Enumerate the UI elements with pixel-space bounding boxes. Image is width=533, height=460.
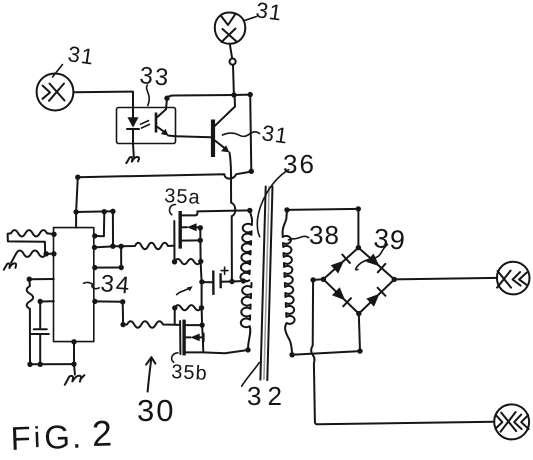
mosfet 35a gate — [173, 221, 175, 262]
junction — [357, 348, 362, 353]
wire R1 elbow — [8, 233, 46, 253]
junction — [172, 259, 177, 264]
transformer primary winding (lower) — [241, 283, 252, 350]
junction — [284, 207, 289, 212]
wire 35a drain to transformer (horizontal y210) — [197, 210, 249, 211]
junction (opto collector) — [164, 96, 169, 101]
transformer primary winding — [240, 211, 252, 282]
svg-text:35a: 35a — [164, 185, 201, 209]
junction (bridge corner) — [321, 277, 326, 282]
junction — [110, 209, 115, 214]
wire collector rail y95 — [167, 95, 234, 98]
ground (main) — [73, 364, 76, 375]
wire node A vertical — [200, 228, 202, 325]
label 32 — [242, 363, 260, 387]
lamp (output, right) — [497, 262, 530, 295]
svg-text:33: 33 — [138, 62, 171, 92]
mosfet 35b body-diode arrow — [186, 336, 191, 338]
wire — [47, 232, 54, 235]
ground (optocoupler) — [132, 144, 135, 157]
junction — [119, 265, 124, 270]
wire — [113, 245, 121, 247]
wire to x250 — [234, 94, 250, 96]
diode D1 — [331, 261, 344, 274]
junction (IC pin) — [92, 233, 97, 238]
junction — [198, 238, 203, 243]
wire left corner down to bottom lamp (with jog) — [311, 280, 494, 424]
phototransistor inside optocoupler — [155, 113, 158, 133]
svg-text:31: 31 — [66, 41, 96, 69]
junction — [289, 352, 294, 357]
junction — [102, 209, 107, 214]
junction (IC pin) — [92, 265, 97, 270]
junction — [27, 362, 32, 367]
svg-text:31: 31 — [254, 0, 284, 26]
wire x113 vertical — [112, 212, 114, 247]
wire R6 left vertical — [174, 308, 176, 325]
wire IC pin to R3 node — [95, 246, 113, 247]
junction — [73, 209, 78, 214]
mosfet 35b source stub — [186, 351, 203, 353]
wire x123 vertical — [122, 302, 124, 325]
mosfet 35b drain stub — [186, 324, 202, 326]
svg-text:31: 31 — [260, 120, 290, 148]
junction (IC bottom pin) — [71, 339, 76, 344]
svg-text:34: 34 — [99, 270, 132, 300]
bridge edge (left-bottom) — [323, 279, 358, 313]
junction (cap node) — [199, 279, 204, 284]
lamp 31 (left) — [37, 74, 74, 111]
label 35b — [172, 353, 178, 362]
junction — [198, 259, 203, 264]
junction (IC pin) — [27, 277, 32, 282]
capacitor C1 — [212, 271, 214, 295]
wire emitter vertical (with hop bulge) — [230, 153, 236, 282]
junction — [38, 362, 43, 367]
bridge edge (bottom-right) — [359, 279, 395, 313]
junction — [118, 244, 123, 249]
resistor R1 — [11, 230, 47, 236]
junction — [199, 305, 204, 310]
mosfet 35a body-diode arrow — [182, 226, 187, 228]
wire to bridge top — [357, 209, 359, 248]
junction (IC pin) — [51, 232, 56, 237]
svg-text:39: 39 — [372, 223, 407, 256]
small arrow mark — [177, 288, 191, 295]
resistor R2 — [16, 251, 46, 257]
junction — [110, 244, 115, 249]
node (open terminal circle) — [230, 59, 236, 65]
capacitor C2 — [39, 302, 41, 329]
junction (bridge corner) — [356, 245, 361, 250]
svg-text:32: 32 — [247, 381, 288, 411]
wire bridge right to lamp — [394, 278, 497, 280]
mosfet 35b channel — [182, 320, 185, 356]
junction (bridge corner) — [392, 277, 397, 282]
wire top rail y176 (with dip hop) — [78, 172, 251, 179]
resistor R5 (gate-source 35a) — [175, 259, 201, 264]
lamp (output, bottom) — [494, 404, 529, 439]
junction — [75, 175, 80, 180]
diode D2 — [366, 254, 379, 267]
junction (IC pin) — [51, 251, 56, 256]
wire IC pin to y212 rail — [95, 212, 105, 236]
svg-text:38: 38 — [309, 220, 340, 250]
junction — [247, 208, 252, 213]
svg-text:FiG.2: FiG.2 — [10, 412, 113, 455]
junction — [198, 225, 203, 230]
mosfet 35a channel — [178, 211, 181, 249]
junction — [120, 322, 125, 327]
mosfet 35a drain stub — [182, 211, 198, 215]
svg-text:36: 36 — [283, 149, 316, 179]
wire left lamp to optocoupler LED — [73, 92, 133, 108]
junction — [120, 299, 125, 304]
junction (IC pin) — [92, 245, 97, 250]
wire lamp-top to node — [230, 44, 232, 58]
wire secondary top — [287, 209, 358, 210]
junction — [44, 251, 49, 256]
wire R7 to rail — [29, 309, 31, 364]
junction — [310, 277, 315, 282]
junction — [71, 361, 76, 366]
wire bottom rail to secondary — [292, 351, 360, 355]
junction — [245, 347, 250, 352]
junction — [199, 322, 204, 327]
diode D3 — [332, 287, 345, 300]
transformer secondary winding 38 — [283, 210, 295, 355]
bridge edge (left-top) — [323, 248, 358, 280]
resistor R6 (gate-drain 35b) — [175, 305, 202, 310]
wire node down to junction — [232, 65, 235, 95]
wire rail down to IC top — [76, 177, 78, 227]
label 34 — [84, 282, 100, 288]
resistor R7 (vertical) — [27, 279, 33, 309]
transistor 31 (bipolar) — [211, 120, 215, 158]
wire 35b drain-source vertical — [202, 325, 203, 352]
svg-text:35b: 35b — [171, 361, 208, 385]
controller IC U34 box — [54, 228, 94, 342]
junction — [249, 169, 254, 174]
lamp 31 (top) — [215, 12, 246, 43]
wire IC bottom pin — [73, 342, 75, 364]
wire optocoupler emitter to transistor base — [176, 136, 211, 137]
mosfet 35b gate — [179, 321, 181, 354]
wire x121 vertical — [120, 246, 122, 267]
resistor R3 (gate 35a) — [121, 243, 174, 249]
wire bridge left stub — [313, 278, 323, 281]
bridge edge (top-right) — [358, 248, 394, 280]
arrow 30 — [148, 358, 152, 392]
junction — [241, 278, 246, 283]
wire x250 vertical — [250, 95, 251, 171]
coupling marks — [141, 121, 150, 128]
wire y212 — [76, 210, 113, 213]
wire IC pin left — [40, 300, 54, 302]
ground (R2) — [11, 254, 16, 263]
junction — [172, 305, 177, 310]
junction (IC pin) — [92, 299, 97, 304]
wire 35b source to transformer — [203, 350, 248, 353]
wire IC pin right — [95, 300, 123, 302]
transformer core 32 — [260, 187, 265, 380]
mosfet 35a source stub — [182, 239, 200, 241]
LED inside optocoupler — [132, 108, 134, 118]
resistor R4 (gate 35b) — [123, 321, 175, 327]
diode D4 — [366, 294, 379, 307]
ground rail — [30, 363, 74, 365]
wire IC pin right — [95, 267, 121, 269]
junction (bridge corner) — [356, 311, 361, 316]
junction — [231, 92, 236, 97]
wire bridge bottom down — [359, 314, 360, 351]
optocoupler U33 box — [117, 108, 176, 144]
wire — [46, 253, 54, 255]
wire gate feed — [175, 324, 180, 326]
junction — [248, 92, 253, 97]
junction — [356, 206, 361, 211]
wire tap — [232, 280, 247, 283]
svg-text:30: 30 — [137, 393, 175, 428]
junction (IC pin) — [38, 299, 43, 304]
junction — [229, 279, 234, 284]
wire IC pin left — [29, 278, 54, 280]
